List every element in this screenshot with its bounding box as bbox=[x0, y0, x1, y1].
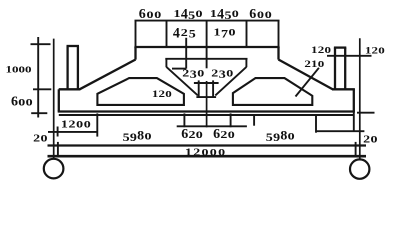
svg-text:5: 5 bbox=[123, 131, 130, 143]
svg-text:2: 2 bbox=[182, 67, 189, 79]
svg-text:3: 3 bbox=[190, 68, 197, 80]
svg-text:9: 9 bbox=[130, 131, 137, 143]
svg-text:o: o bbox=[324, 41, 331, 56]
svg-text:5: 5 bbox=[224, 9, 231, 21]
svg-text:3: 3 bbox=[219, 68, 226, 80]
svg-text:o: o bbox=[195, 6, 202, 21]
svg-text:2: 2 bbox=[211, 67, 218, 79]
svg-text:5: 5 bbox=[188, 9, 195, 21]
svg-text:o: o bbox=[257, 7, 264, 22]
svg-text:6: 6 bbox=[11, 95, 18, 110]
svg-text:o: o bbox=[226, 65, 233, 80]
svg-text:o: o bbox=[25, 60, 32, 75]
svg-text:o: o bbox=[76, 116, 83, 131]
svg-text:o: o bbox=[378, 42, 385, 57]
svg-text:1: 1 bbox=[185, 146, 192, 158]
svg-text:5: 5 bbox=[266, 131, 273, 143]
svg-text:2: 2 bbox=[363, 134, 370, 146]
svg-text:o: o bbox=[84, 116, 91, 131]
svg-text:o: o bbox=[26, 95, 33, 110]
svg-text:6: 6 bbox=[139, 7, 146, 22]
svg-text:1: 1 bbox=[214, 27, 221, 39]
svg-text:o: o bbox=[229, 25, 236, 40]
svg-text:2: 2 bbox=[181, 27, 188, 39]
svg-text:6: 6 bbox=[181, 127, 188, 142]
svg-text:o: o bbox=[210, 144, 217, 159]
svg-text:o: o bbox=[40, 131, 47, 146]
svg-text:o: o bbox=[154, 7, 161, 22]
svg-text:1: 1 bbox=[61, 118, 68, 130]
svg-text:o: o bbox=[218, 144, 225, 159]
svg-text:o: o bbox=[147, 7, 154, 22]
svg-text:o: o bbox=[265, 7, 272, 22]
svg-text:o: o bbox=[144, 129, 151, 144]
svg-text:o: o bbox=[228, 127, 235, 142]
svg-text:2: 2 bbox=[33, 132, 40, 144]
svg-text:1: 1 bbox=[210, 8, 217, 20]
svg-text:9: 9 bbox=[273, 131, 280, 143]
svg-text:2: 2 bbox=[193, 146, 200, 158]
svg-text:1: 1 bbox=[174, 8, 181, 20]
svg-text:8: 8 bbox=[280, 128, 287, 142]
svg-text:2: 2 bbox=[220, 129, 227, 141]
svg-text:5: 5 bbox=[189, 28, 196, 40]
svg-text:o: o bbox=[18, 95, 25, 110]
svg-text:2: 2 bbox=[189, 129, 196, 141]
svg-text:6: 6 bbox=[249, 7, 256, 22]
svg-text:4: 4 bbox=[173, 25, 181, 42]
svg-text:o: o bbox=[370, 132, 377, 147]
svg-text:o: o bbox=[165, 85, 172, 100]
svg-text:o: o bbox=[288, 129, 295, 144]
svg-text:2: 2 bbox=[69, 118, 76, 130]
svg-text:o: o bbox=[232, 6, 239, 21]
svg-text:o: o bbox=[202, 144, 209, 159]
svg-text:8: 8 bbox=[137, 128, 144, 142]
svg-text:o: o bbox=[197, 65, 204, 80]
svg-text:o: o bbox=[196, 127, 203, 142]
svg-text:o: o bbox=[318, 55, 325, 70]
svg-text:6: 6 bbox=[213, 127, 220, 142]
